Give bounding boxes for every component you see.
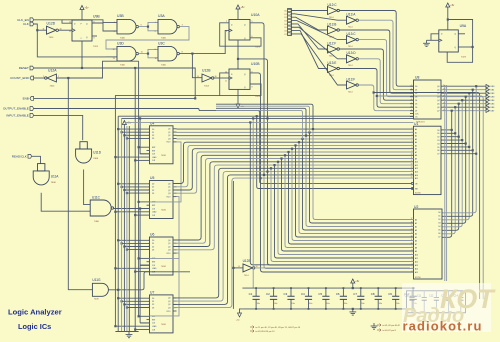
wire spare right vertical A [374,93,480,300]
note ground right [373,323,375,326]
watermark overlay [402,283,491,332]
svg-text:C9: C9 [388,292,392,296]
data bus verticals U8-U1-U2 [442,111,452,238]
svg-text:A6: A6 [415,148,417,151]
svg-text:8: 8 [94,38,95,40]
wire CLK_EN to U9B.D and U3B [34,20,72,23]
svg-text:A8: A8 [415,247,417,250]
svg-text:74161: 74161 [161,266,166,268]
svg-text:Logic Analyzer: Logic Analyzer [8,308,62,317]
wire aux vertical B [252,118,254,288]
junction U3B-U3A [147,26,149,28]
svg-text:D7: D7 [284,34,286,36]
capacitor C2 [273,288,275,296]
junctions address taps [259,177,261,179]
counter U4 [150,126,174,164]
U9A top pin [447,20,449,30]
svg-text:ENP: ENP [152,316,155,318]
svg-text:9: 9 [155,49,156,51]
svg-text:Logic ICs: Logic ICs [18,322,51,331]
svg-text:A14: A14 [415,268,418,271]
svg-text:74161: 74161 [161,210,166,212]
svg-text:U3C: U3C [158,41,165,45]
inverter U13:A [347,16,357,24]
svg-text:D1: D1 [152,187,154,189]
junction U3D-U3C [147,53,149,55]
svg-text:100n: 100n [326,303,330,305]
svg-text:DB2: DB2 [491,93,495,95]
svg-text:D3: D3 [284,20,286,22]
svg-text:A13: A13 [415,171,418,174]
svg-text:A6: A6 [415,240,417,243]
svg-text:U3D: U3D [117,41,124,45]
svg-text:7474: 7474 [93,46,99,48]
svg-text:U11C: U11C [92,196,101,200]
svg-text:A0: A0 [415,219,417,222]
svg-text:Q5: Q5 [437,104,439,106]
ground U9A [426,40,428,43]
svg-text:U5: U5 [150,176,154,180]
junctions U6 control taps [117,239,119,241]
wire U9A.Q stub [458,33,465,35]
svg-text:A2: A2 [415,226,417,229]
NAND U11C [90,200,111,216]
wire U10 clear branch [238,59,268,172]
svg-text:100n: 100n [274,303,278,305]
svg-text:D3: D3 [152,307,154,309]
wire U9B.Qbar stub [92,35,97,37]
capacitor C4 [308,288,310,296]
wire CLK to U12D input [34,24,47,30]
svg-text:12: 12 [69,21,71,23]
svg-text:7400: 7400 [161,65,167,67]
U9A feedback loop [447,20,472,63]
svg-text:A15: A15 [415,271,418,274]
svg-text:C7: C7 [353,292,357,296]
svg-text:2: 2 [155,31,156,33]
svg-text:A0: A0 [415,128,417,131]
wire U4.RCO cascade [150,142,182,202]
svg-text:D2: D2 [152,190,154,192]
wires inverter outputs to U8 inputs [339,11,413,87]
svg-text:Q2: Q2 [168,135,170,137]
svg-text:3: 3 [226,31,227,33]
svg-text:DB3: DB3 [491,97,495,99]
svg-text:D4: D4 [437,143,439,145]
U10A feedback loop [220,23,261,46]
svg-text:A12: A12 [415,261,418,264]
svg-text:A5: A5 [415,144,417,147]
svg-text:62256: 62256 [415,277,421,279]
svg-text:D6: D6 [438,233,440,235]
svg-text:7408: 7408 [93,158,99,160]
svg-text:A3: A3 [415,229,417,232]
svg-text:D0: D0 [284,10,286,12]
svg-text:U13:A: U13:A [347,13,357,17]
svg-text:ENB: ENB [23,97,29,101]
svg-text:4: 4 [114,22,115,24]
power rail verticals right [444,85,446,281]
svg-text:DB6: DB6 [491,107,495,109]
svg-text:A8: A8 [415,154,417,157]
svg-text:A15: A15 [415,177,418,180]
svg-text:C6: C6 [336,292,340,296]
svg-text:Q2: Q2 [168,246,170,248]
svg-text:U7: U7 [150,291,154,295]
wire spare right vertical B [377,96,483,299]
U10B clear pin to +5v [237,89,239,104]
svg-text:Q2: Q2 [437,93,439,95]
U9B clear pin to RESET net [81,41,83,68]
wire U3D out to U3C inputs [138,49,158,53]
wire U10B loop to counter channel [115,96,219,327]
svg-text:A13: A13 [415,264,418,267]
wire RESET net [34,68,196,98]
svg-text:D2: D2 [284,17,286,19]
svg-text:U2: U2 [414,205,418,209]
svg-text:A10: A10 [415,161,418,164]
svg-text:A9: A9 [415,157,417,160]
svg-text:U1: U1 [414,122,418,126]
counter U6 [150,237,174,275]
svg-text:D1: D1 [437,133,439,135]
wire channel v2 [121,118,123,331]
svg-text:A5: A5 [415,236,417,239]
svg-text:U12A: U12A [48,69,57,73]
wire U9A ground pin [427,39,439,41]
junction U3C out [191,53,193,55]
svg-text:A11: A11 [415,257,418,260]
wire U12D out to U9B.CLK [58,29,72,31]
svg-text:to C1 pin 40, C2 pin 40, U3 pi: to C1 pin 40, C2 pin 40, U3 pin 74, U4-U… [256,326,302,329]
svg-text:10: 10 [155,58,157,60]
junction U9A qbar [472,46,474,48]
wire channel v3 +5v [123,129,125,332]
svg-text:A4: A4 [415,141,417,144]
wire +5v rail horizontal [124,121,413,123]
svg-text:D4: D4 [415,100,417,102]
wire channel v4 [126,126,128,332]
svg-text:Q3: Q3 [168,193,170,195]
svg-text:D3: D3 [152,249,154,251]
svg-text:Q2: Q2 [168,190,170,192]
junction U12E in [232,267,234,269]
svg-text:U9B: U9B [93,15,100,19]
svg-text:C8: C8 [371,292,375,296]
wire U11C out clock to counters [114,208,150,210]
svg-text:1: 1 [58,76,59,78]
wire CE down to U2 [250,122,413,264]
junction U10 clear [237,58,239,60]
svg-text:Q3: Q3 [168,307,170,309]
svg-text:100n: 100n [309,303,313,305]
svg-text:Q0: Q0 [168,298,170,300]
svg-text:7414: 7414 [204,85,210,87]
wire U5.RCO cascade [150,197,180,259]
svg-text:D2: D2 [152,246,154,248]
svg-text:U10B: U10B [251,62,260,66]
svg-text:A1: A1 [415,131,417,134]
svg-text:D0: D0 [152,129,154,131]
junctions U7 control taps [117,297,119,299]
wire U11A out to U11C [41,193,90,211]
svg-text:ENT: ENT [152,262,155,264]
svg-text:U6: U6 [150,233,154,237]
ground cap rail [352,309,354,312]
svg-text:COUNT_END: COUNT_END [10,76,30,80]
svg-text:74161: 74161 [161,324,166,326]
svg-text:ENT: ENT [152,205,155,207]
svg-text:D3: D3 [415,97,417,99]
svg-text:7408: 7408 [51,182,57,184]
svg-text:D1: D1 [438,216,440,218]
junction clock [139,207,141,209]
svg-text:A11: A11 [415,164,418,167]
svg-text:Q0: Q0 [437,86,439,88]
svg-text:C4: C4 [301,292,305,296]
svg-text:C5: C5 [318,292,322,296]
svg-text:D4: D4 [284,24,286,26]
svg-text:D6: D6 [415,107,417,109]
svg-text:U11A: U11A [51,175,60,179]
svg-text:D7: D7 [438,237,440,239]
svg-text:11: 11 [225,80,227,82]
wire U6.RCO cascade [150,253,180,316]
svg-text:100n: 100n [396,303,400,305]
svg-text:7474: 7474 [255,47,261,49]
connector P1 data inputs D0-D7 [288,9,292,36]
address bus risers from counters [173,142,414,183]
wires connector to inverters [292,10,328,12]
+5v cap rail [352,283,354,288]
wire OUTPUT_ENABLE to U1.OE [34,109,414,184]
U9B preset pin to +5v [81,14,83,21]
svg-text:D5: D5 [415,104,417,106]
wire U12E out [255,267,410,269]
svg-text:DB7: DB7 [491,111,495,113]
svg-text:U12:F: U12:F [328,41,337,45]
svg-text:to U4,U7 pin 8: to U4,U7 pin 8 [383,329,397,332]
svg-text:D3: D3 [437,140,439,142]
svg-text:DB1: DB1 [491,90,495,92]
svg-text:to U3,U9-U13 pin 14: to U3,U9-U13 pin 14 [256,330,276,333]
junction spare A [373,91,375,93]
flip-flop U10B [229,69,250,89]
svg-text:U12:C: U12:C [328,3,338,7]
wire COUNT_END branch down to U11G [68,78,92,290]
junction U12A net [67,77,69,79]
inverter U13:C [347,36,357,44]
svg-text:A3: A3 [415,138,417,141]
flip-flop U9B [72,20,92,41]
svg-text:READ/CLK: READ/CLK [12,154,27,158]
svg-text:D3: D3 [152,138,154,140]
svg-text:7400: 7400 [120,38,126,40]
wire channel clk line to U8 [118,115,413,117]
svg-text:7474: 7474 [461,57,467,59]
svg-text:D1: D1 [284,14,286,16]
capacitor C3 [290,288,292,296]
wire U12E input riser [232,181,234,309]
svg-text:Q3: Q3 [437,97,439,99]
svg-text:ENP: ENP [152,147,155,149]
svg-text:U13:E: U13:E [328,61,337,65]
svg-text:ENT: ENT [152,150,155,152]
ground counters channel [115,331,138,333]
U10A preset to +5v [237,13,239,20]
svg-text:7400: 7400 [94,221,100,223]
svg-text:D2: D2 [437,137,439,139]
svg-text:CLK: CLK [23,22,29,26]
wire U10B.Q to bus tap [250,73,261,178]
wire U9A.D [431,34,439,41]
svg-text:U11D: U11D [93,151,102,155]
svg-text:D3: D3 [152,193,154,195]
wire U11D out to U11C [84,170,91,205]
junction U11G out [117,289,119,291]
svg-text:100n: 100n [257,303,261,305]
svg-text:7400: 7400 [161,38,167,40]
capacitor C1 [255,288,257,296]
svg-text:100n: 100n [361,303,365,305]
svg-text:D2: D2 [152,304,154,306]
wire U12B out to U10B.CLK [214,77,229,79]
wire master clock drop to U4 [140,118,149,153]
svg-text:D1: D1 [152,132,154,134]
svg-text:7474: 7474 [255,96,261,98]
wires U8 outputs to connectors DB0-DB7 [441,85,486,87]
wire U9B.Q to U3B input [92,23,117,31]
junctions U5 control taps [117,183,119,185]
wire U1.WE from channel [257,116,414,188]
svg-text:D2: D2 [152,135,154,137]
NAND U3B [117,19,136,34]
svg-text:D4: D4 [438,226,440,228]
svg-text:D6: D6 [284,31,286,33]
svg-text:D1: D1 [152,301,154,303]
svg-text:to U1,U2 pin 40,42: to U1,U2 pin 40,42 [383,324,401,327]
svg-text:Q7: Q7 [437,111,439,113]
wire COUNT_END branch down channel [138,61,140,316]
svg-text:U8: U8 [415,75,419,79]
wire U3C out to U12B and U10A.CLK [179,54,202,78]
wires U1 data pins to bus [441,129,452,131]
wire U9A.Qbar to loop [458,46,472,48]
capacitor C10 [412,288,414,296]
svg-text:DB5: DB5 [491,104,495,106]
capacitors C10-C14 [407,291,466,313]
svg-text:U13:F: U13:F [347,77,356,81]
wire COUNT_END to U12A out [34,77,45,79]
svg-text:D6: D6 [437,150,439,152]
inverter U13:D [347,55,357,63]
svg-text:62256: 62256 [415,193,421,195]
AND U11G [92,283,108,296]
wire net U10A.Q long horizontal [122,117,414,119]
svg-text:7414: 7414 [49,37,55,39]
svg-text:C1: C1 [249,292,253,296]
junction spare B [376,95,378,97]
svg-text:C2: C2 [266,292,270,296]
inverter U13:F [347,81,357,89]
svg-text:Q1: Q1 [437,90,439,92]
svg-text:D7: D7 [437,154,439,156]
svg-text:A7: A7 [415,151,417,154]
svg-text:A1: A1 [415,222,417,225]
U10A clear chain [237,40,239,69]
counter U5 [150,181,174,219]
junction CLK [36,29,38,31]
wire clock down to U6 U7 [139,209,141,323]
svg-text:C3: C3 [283,292,287,296]
U10B feedback loop [220,73,261,96]
capacitor C9 [395,288,397,296]
svg-text:D0: D0 [415,86,417,88]
note arrows mid [250,326,254,333]
inverter U13:B [328,26,338,34]
AND U11D [76,149,92,163]
flip-flop U9A [439,30,459,52]
register U8 [414,80,442,119]
wire CLK down to U3D input row [37,30,106,57]
RAM U1 [414,126,442,194]
svg-text:A7: A7 [415,243,417,246]
inverter U12B [202,74,212,82]
svg-text:Q4: Q4 [437,100,439,102]
svg-text:A14: A14 [415,174,418,177]
svg-text:D1: D1 [415,90,417,92]
AND U11A [33,171,49,185]
capacitor C5 [325,288,327,296]
note arrows right [377,324,381,332]
svg-text:D3: D3 [438,223,440,225]
capacitor rail top and bottom [242,287,415,289]
svg-text:U11G: U11G [92,278,101,282]
svg-text:U13:D: U13:D [347,51,357,55]
wire U12A in net [56,61,138,78]
svg-text:U9A: U9A [460,24,467,28]
svg-text:A9: A9 [415,250,417,253]
inverter U12A [47,74,56,82]
svg-text:2: 2 [43,76,44,78]
wires upper feeders to right taps [216,104,313,129]
inverter U12:C [328,7,338,15]
svg-text:D2: D2 [415,93,417,95]
svg-text:D1: D1 [152,243,154,245]
svg-text:DB0: DB0 [491,86,495,88]
svg-text:Q0: Q0 [168,240,170,242]
svg-text:8: 8 [252,86,253,88]
svg-text:A10: A10 [415,254,418,257]
svg-text:U12B: U12B [202,68,211,72]
junctions U4 control taps [117,128,119,130]
counter U7 [150,295,174,333]
cap rail left +5v arrow [240,309,243,313]
NAND U3A [158,19,177,34]
svg-text:U12E: U12E [243,259,251,263]
inverter U12:F [328,45,338,53]
wire RESET down counter channel [134,68,136,332]
svg-text:D5: D5 [284,27,286,29]
svg-text:U13:B: U13:B [328,22,337,26]
svg-text:13: 13 [113,58,115,60]
svg-text:100n: 100n [344,303,348,305]
svg-text:RESET: RESET [19,66,29,70]
svg-text:1: 1 [155,22,156,24]
wire READ_CLK to U11A [32,156,41,163]
svg-text:Q0: Q0 [168,129,170,131]
junction U9B-RESET [81,67,83,69]
